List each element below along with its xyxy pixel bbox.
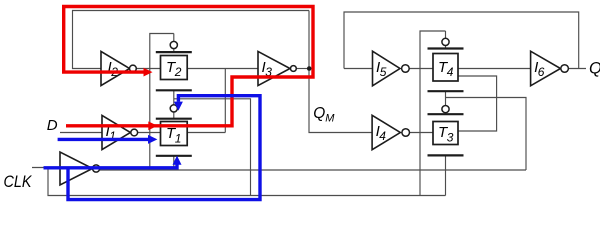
svg-text:M: M [325, 113, 335, 125]
svg-text:6: 6 [538, 65, 545, 79]
svg-text:4: 4 [447, 65, 454, 79]
svg-text:4: 4 [379, 129, 386, 143]
svg-text:CLK: CLK [4, 172, 33, 191]
svg-text:2: 2 [174, 65, 182, 79]
svg-text:D: D [47, 117, 58, 134]
svg-text:1: 1 [175, 131, 182, 145]
svg-text:Q: Q [313, 105, 325, 122]
svg-text:5: 5 [380, 65, 387, 79]
svg-text:Q: Q [589, 60, 600, 78]
svg-text:3: 3 [447, 130, 454, 144]
